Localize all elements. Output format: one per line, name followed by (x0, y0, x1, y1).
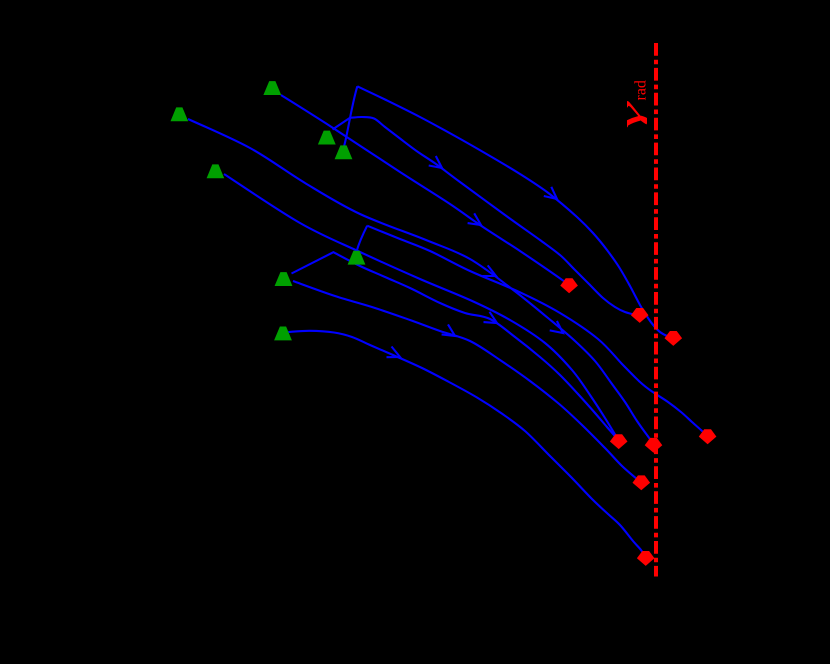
svg-text:rad: rad (633, 80, 650, 100)
svg-text:γ: γ (614, 100, 647, 128)
